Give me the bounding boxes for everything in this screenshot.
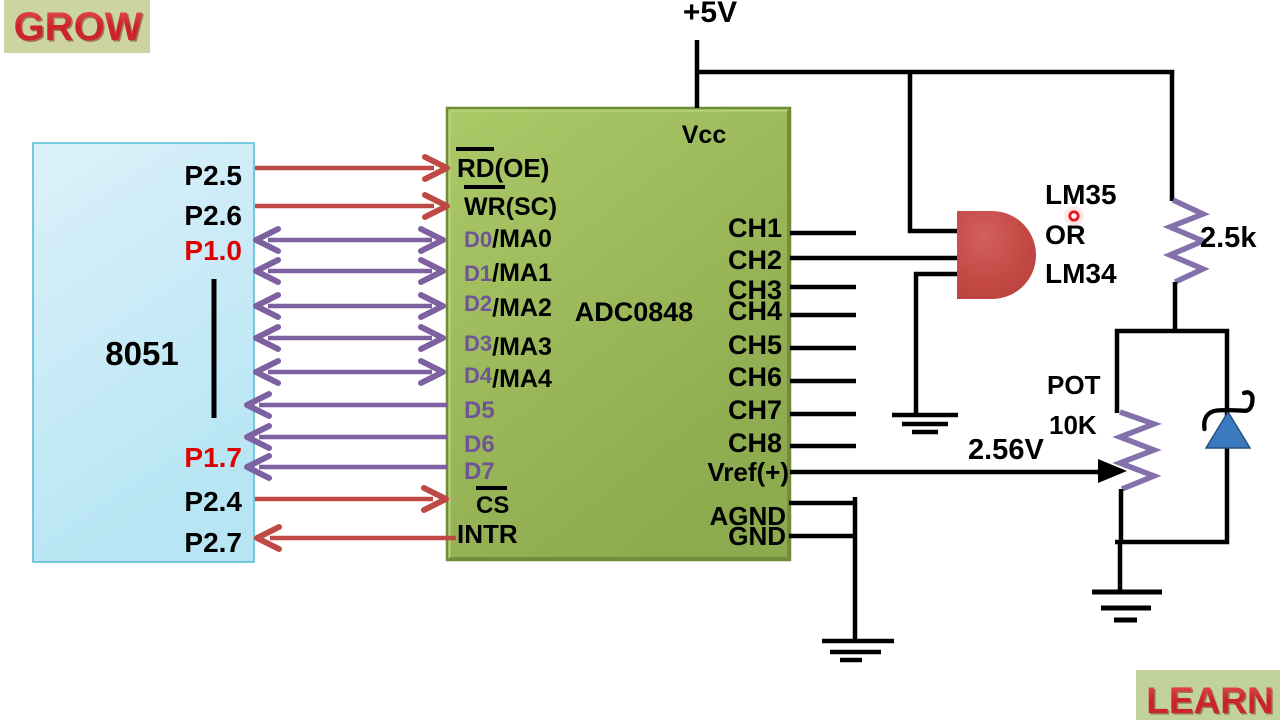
svg-text:CH1: CH1 bbox=[728, 213, 782, 243]
wire D1 bus arrow bbox=[256, 260, 443, 282]
svg-text:D0/MA0: D0/MA0 bbox=[464, 225, 552, 253]
wire resistor R1 to pot network bbox=[1173, 282, 1178, 333]
wire Vref(+) to potentiometer wiper with arrow bbox=[790, 459, 1127, 483]
resistor R1 2.5k zigzag bbox=[1170, 200, 1203, 282]
pin RD(OE) bbox=[456, 149, 549, 183]
svg-text:RD(OE): RD(OE) bbox=[457, 153, 549, 183]
wire sensor ground pin bbox=[916, 274, 962, 415]
pin CS bbox=[476, 488, 509, 519]
svg-text:GROW: GROW bbox=[14, 5, 143, 49]
wire rail to sensor supply bbox=[910, 72, 957, 231]
wire pot bottom lead bbox=[1119, 489, 1124, 544]
svg-text:10K: 10K bbox=[1049, 410, 1097, 440]
svg-text:D6: D6 bbox=[464, 431, 495, 458]
ground ADC bbox=[822, 641, 894, 660]
wire P2.6 to WR arrow bbox=[255, 195, 447, 217]
GROW logo bbox=[4, 0, 150, 53]
ground sensor bbox=[892, 415, 958, 432]
wire D2 bus arrow bbox=[256, 295, 443, 317]
wire CH2 to sensor output bbox=[790, 256, 957, 261]
svg-text:POT: POT bbox=[1047, 370, 1101, 400]
wire INTR to P2.7 arrow bbox=[257, 527, 456, 549]
wire D6 arrow bbox=[247, 426, 448, 448]
wire D4 bus arrow bbox=[256, 361, 443, 383]
svg-text:P2.4: P2.4 bbox=[184, 486, 242, 517]
pointer dot bbox=[1064, 206, 1084, 226]
svg-text:P1.0: P1.0 bbox=[184, 235, 242, 266]
svg-text:CS: CS bbox=[476, 492, 509, 519]
svg-text:2.5k: 2.5k bbox=[1200, 222, 1257, 254]
wire CH4 stub bbox=[790, 313, 856, 318]
diode D1 zener bbox=[1204, 392, 1252, 448]
svg-text:LM35: LM35 bbox=[1045, 179, 1117, 210]
wire CH6 stub bbox=[790, 379, 856, 384]
svg-text:Vref(+): Vref(+) bbox=[707, 457, 789, 487]
wire D3 bus arrow bbox=[256, 327, 443, 349]
svg-text:GND: GND bbox=[728, 521, 786, 551]
LEARN logo bbox=[1136, 670, 1280, 720]
wire D0 bus arrow bbox=[256, 229, 443, 251]
pin WR(SC) bbox=[464, 187, 557, 221]
wire GND stub bbox=[789, 534, 857, 539]
svg-text:CH8: CH8 bbox=[728, 428, 782, 458]
microcontroller U1 8051 box bbox=[33, 143, 254, 562]
svg-text:INTR: INTR bbox=[457, 519, 518, 549]
svg-text:D1/MA1: D1/MA1 bbox=[464, 259, 552, 287]
wire pot network bottom rail bbox=[1115, 540, 1229, 545]
wire CH3 stub bbox=[790, 285, 856, 290]
svg-text:2.56V: 2.56V bbox=[968, 434, 1044, 466]
svg-text:WR(SC): WR(SC) bbox=[464, 193, 557, 221]
wire pot to ground bbox=[1118, 542, 1123, 591]
wire P2.5 to RD arrow bbox=[255, 157, 447, 179]
svg-text:ADC0848: ADC0848 bbox=[575, 297, 694, 327]
wire D7 arrow bbox=[247, 456, 448, 478]
wire CH5 stub bbox=[790, 346, 856, 351]
svg-text:CH4: CH4 bbox=[728, 296, 782, 326]
wire pot top lead bbox=[1115, 329, 1120, 413]
wire CH1 stub bbox=[790, 231, 856, 236]
wire AGND stub bbox=[789, 501, 857, 506]
svg-text:Vcc: Vcc bbox=[682, 121, 727, 149]
svg-text:CH6: CH6 bbox=[728, 362, 782, 392]
svg-text:LM34: LM34 bbox=[1045, 258, 1117, 289]
wire P2.4 to CS arrow bbox=[255, 488, 446, 510]
svg-text:CH2: CH2 bbox=[728, 245, 782, 275]
wire D5 arrow bbox=[247, 394, 448, 416]
wire CH7 stub bbox=[790, 412, 856, 417]
ground pot bbox=[1092, 592, 1162, 620]
potentiometer RV1 zigzag bbox=[1120, 412, 1154, 489]
svg-text:+5V: +5V bbox=[683, 0, 737, 29]
wire AGND/GND to ground bbox=[853, 497, 858, 640]
svg-text:P1.7: P1.7 bbox=[184, 442, 242, 473]
wire top supply rail bbox=[695, 70, 1174, 75]
svg-text:8051: 8051 bbox=[105, 335, 178, 372]
svg-text:CH7: CH7 bbox=[728, 395, 782, 425]
wire CH8 stub bbox=[790, 444, 856, 449]
wire rail to resistor R1 bbox=[1170, 70, 1175, 201]
svg-text:P2.7: P2.7 bbox=[184, 527, 242, 558]
port continuation bar bbox=[212, 279, 217, 418]
wire diode branch bbox=[1225, 329, 1230, 544]
svg-text:LEARN: LEARN bbox=[1146, 680, 1273, 720]
svg-text:P2.5: P2.5 bbox=[184, 160, 242, 191]
wire pot network top rail bbox=[1115, 329, 1229, 334]
svg-text:D5: D5 bbox=[464, 397, 495, 424]
temperature sensor U3 body bbox=[957, 211, 1036, 299]
svg-text:P2.6: P2.6 bbox=[184, 200, 242, 231]
svg-text:CH5: CH5 bbox=[728, 330, 782, 360]
ADC U2 ADC0848 box bbox=[447, 108, 790, 560]
svg-text:D7: D7 bbox=[464, 458, 495, 485]
wire +5V to Vcc bbox=[695, 40, 700, 108]
svg-text:OR: OR bbox=[1045, 220, 1086, 250]
